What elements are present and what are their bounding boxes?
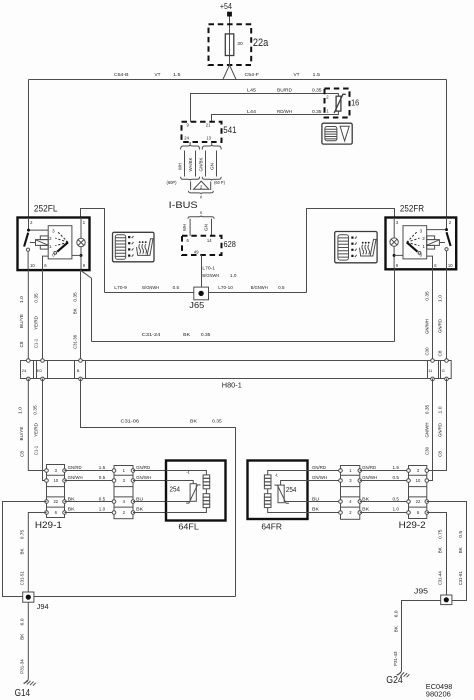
svg-text:BU/YE: BU/YE: [19, 426, 24, 440]
svg-text:0.5: 0.5: [278, 285, 285, 290]
svg-text:C31-51: C31-51: [20, 571, 25, 586]
svg-text:1.0: 1.0: [17, 406, 22, 414]
heater regulator element of 252FL: [30, 242, 36, 244]
wire stub 541 pin 24 to bundle: [189, 142, 191, 145]
switch arm of 252FL: [24, 233, 28, 247]
svg-text:1.5: 1.5: [393, 465, 400, 470]
svg-text:H29-1: H29-1: [35, 519, 62, 530]
svg-text:0.35: 0.35: [73, 291, 78, 301]
svg-text:16: 16: [351, 99, 359, 108]
wire H29-1 pin 6 to J94 BK 0.75: [28, 513, 46, 593]
wire C31-24 BK 0.35: [92, 341, 395, 343]
wire 252FR pin 9 drop: [394, 269, 396, 342]
bundle close brace left: [181, 177, 200, 181]
svg-text:YE/RD: YE/RD: [33, 423, 38, 437]
svg-text:13: 13: [206, 136, 211, 141]
svg-text:0.35: 0.35: [425, 404, 430, 414]
wire H29-2 pin 22 to J95 BK 0.5: [427, 502, 467, 601]
svg-text:GN/RD: GN/RD: [136, 465, 150, 470]
svg-text:C8: C8: [19, 341, 24, 348]
bundle close brace right: [202, 177, 221, 181]
svg-text:0.75: 0.75: [437, 529, 442, 539]
seat heater icon box right: [335, 232, 377, 263]
wire stub 541 pin 13 to bundle: [211, 142, 213, 145]
fuse 22a dashed box: [209, 24, 252, 65]
svg-text:0.5: 0.5: [458, 530, 463, 538]
svg-text:0.35: 0.35: [33, 292, 38, 302]
svg-text:C31-36: C31-36: [73, 334, 78, 349]
wire BK 1.0: [360, 512, 409, 514]
wire YE/RD 0.35 from 252FL pin 6 to H80-1: [42, 270, 44, 361]
svg-text:I-BUS: I-BUS: [169, 200, 198, 210]
svg-text:C1-1: C1-1: [34, 445, 39, 455]
svg-text:C31-44: C31-44: [437, 571, 442, 586]
svg-text:254: 254: [170, 486, 181, 493]
svg-text:C31-61: C31-61: [458, 571, 463, 586]
pin 10 of H29-2: [407, 478, 429, 483]
svg-text:1.5: 1.5: [173, 72, 181, 77]
warning triangle 2: [194, 181, 209, 189]
pin 4 of 64FL-conn: [112, 499, 135, 504]
svg-text:1.5: 1.5: [99, 465, 106, 470]
svg-text:P31-34: P31-34: [19, 659, 24, 674]
svg-text:22a: 22a: [253, 37, 268, 49]
svg-text:BK: BK: [73, 308, 78, 314]
svg-text:WH/BK: WH/BK: [188, 157, 193, 171]
svg-text:0.35: 0.35: [312, 109, 322, 114]
svg-text:0.75: 0.75: [20, 529, 25, 539]
svg-text:BK: BK: [437, 547, 442, 553]
svg-text:H80-1: H80-1: [222, 380, 242, 389]
rotary selector lever: [407, 242, 418, 251]
heater coil of 64FR: [268, 471, 308, 475]
switch 252FL box: [18, 218, 90, 271]
svg-text:P31-43: P31-43: [393, 651, 398, 666]
svg-text:EC0498: EC0498: [426, 684, 453, 691]
svg-text:GN/WH: GN/WH: [425, 319, 430, 334]
pin 4 of 64FR-conn: [339, 499, 362, 504]
svg-text:22: 22: [53, 499, 58, 504]
svg-text:1.5: 1.5: [313, 72, 321, 77]
wire H29-2 pin 6 to J95 BK 0.75: [427, 513, 447, 596]
svg-text:VT: VT: [155, 72, 161, 77]
pin 3 of H29-1: [45, 468, 67, 473]
svg-text:49: 49: [194, 250, 199, 255]
svg-text:0.5: 0.5: [173, 285, 180, 290]
wire +54 rail C54: [29, 79, 447, 81]
svg-text:0.35: 0.35: [33, 404, 38, 414]
svg-text:C31-24: C31-24: [142, 332, 161, 337]
svg-text:(60P): (60P): [167, 180, 178, 185]
wire BU/YE 1.0 from 252FL pin 10 to H80-1: [27, 270, 29, 361]
wire 252FL pin 1 riser and branch to J65 rail: [81, 209, 105, 293]
pin 6 of H29-2: [407, 510, 429, 515]
svg-text:E0: E0: [37, 368, 43, 373]
node +54 terminal square: [227, 12, 232, 17]
svg-text:541: 541: [223, 125, 236, 135]
svg-text:30: 30: [237, 41, 243, 46]
pin 2 of 64FL-conn: [112, 510, 135, 515]
heater regulator element of 252FR: [439, 242, 445, 244]
heater coil of 64FL: [166, 471, 206, 475]
thermal sensor of 64FR: [281, 481, 308, 486]
svg-text:GN/WH: GN/WH: [68, 475, 83, 480]
svg-text:252FL: 252FL: [34, 202, 58, 213]
wire GN/RD 1.5: [65, 470, 115, 472]
seat icon left: [137, 247, 148, 255]
connector block at 64FL: [114, 466, 133, 519]
wire L70-1 from 628 pin 49 to J65: [201, 255, 203, 287]
svg-text:0.35: 0.35: [312, 87, 322, 92]
svg-text:GN/RD: GN/RD: [362, 465, 376, 470]
wire WH to 628 pin 6: [189, 219, 191, 236]
svg-text:BK: BK: [362, 507, 369, 512]
svg-text:L70-9: L70-9: [114, 285, 127, 290]
pin 6 of H29-1: [45, 510, 67, 515]
wire BK 0.35 from 252FL pin 9 to H80-1: [80, 270, 82, 361]
svg-text:GN/BK: GN/BK: [198, 157, 203, 171]
sensor 16 dashed box: [325, 89, 350, 118]
indicator lamp of 252FL: [80, 218, 82, 239]
connector H29-1: [47, 465, 65, 518]
svg-text:L44: L44: [247, 109, 257, 114]
svg-text:0.5: 0.5: [99, 496, 106, 501]
svg-text:254: 254: [286, 487, 297, 494]
svg-text:BK: BK: [190, 418, 197, 423]
indicator lamp of 252FR: [393, 218, 395, 238]
wire BK into 64FL: [133, 512, 166, 514]
svg-text:G14: G14: [15, 688, 31, 699]
junction J65: [194, 287, 209, 300]
svg-text:BK: BK: [136, 507, 143, 512]
thermal sensor of 64FL: [166, 481, 193, 484]
wire GN/BK of I-BUS: [205, 151, 207, 177]
svg-text:10: 10: [448, 263, 453, 268]
svg-text:0.5: 0.5: [393, 475, 400, 480]
wire BK 1.0: [65, 512, 115, 514]
svg-text:J65: J65: [189, 301, 205, 310]
wire GN/WH from 64FR: [308, 480, 341, 482]
svg-text:B/GNWH: B/GNWH: [251, 285, 268, 290]
svg-text:628: 628: [224, 239, 237, 249]
svg-text:GN/RD: GN/RD: [438, 423, 443, 437]
twisted pair connector walls: [191, 182, 211, 191]
svg-text:0.35: 0.35: [201, 332, 211, 337]
wire rail riser to 252FL pin 2: [28, 80, 30, 218]
svg-text:C30: C30: [425, 446, 430, 455]
svg-text:10: 10: [53, 478, 58, 483]
svg-text:BK: BK: [68, 507, 75, 512]
svg-text:WH: WH: [178, 163, 183, 170]
wire rail riser to 252FR pin 2: [446, 80, 448, 218]
svg-text:B: B: [77, 368, 80, 373]
svg-text:C1-1: C1-1: [33, 338, 38, 348]
wire GN of I-BUS: [216, 151, 218, 177]
svg-text:0.5: 0.5: [393, 496, 400, 501]
wire rotary common to pin 6: [43, 256, 49, 269]
svg-text:1.0: 1.0: [393, 507, 400, 512]
pin 3 of 64FR-conn: [339, 478, 362, 483]
rotary dashed position rays: [55, 231, 68, 246]
thermistor element in 16: [336, 96, 341, 111]
wire YE/RD 0.35 from H80-1 to H29-1 pin 10: [43, 379, 45, 481]
wire pin 2 feed inside 252FL: [29, 218, 49, 231]
svg-text:0.5: 0.5: [99, 475, 106, 480]
fuse element 30: [229, 34, 231, 56]
heated seat element 64FL box: [166, 461, 226, 521]
wire GN/WH 0.5: [360, 480, 409, 482]
ground G14: [24, 679, 29, 683]
pin 22 of H29-2: [407, 499, 429, 504]
ground G24: [397, 671, 402, 675]
wire 252FL pin 9 jog: [81, 270, 92, 341]
svg-text:+54: +54: [220, 1, 232, 11]
wire C31-06 BK 0.35 ground link: [81, 379, 236, 597]
svg-text:C8: C8: [438, 450, 443, 457]
wire BU into 64FL: [133, 501, 166, 503]
heated seat element 64FR box: [248, 461, 308, 520]
svg-text:0.35: 0.35: [425, 290, 430, 300]
wire BK 0.5: [360, 501, 409, 503]
svg-text:C30: C30: [425, 347, 430, 356]
svg-text:BK: BK: [458, 547, 463, 553]
connector block at 64FR: [341, 466, 360, 520]
svg-text:GN/RD: GN/RD: [312, 465, 326, 470]
svg-text:BK: BK: [183, 332, 190, 337]
wire L45 BU/RD from 541 pin 9 to sensor 16: [191, 94, 339, 122]
svg-text:B/GNWH: B/GNWH: [142, 285, 159, 290]
svg-text:BU: BU: [312, 496, 319, 501]
svg-text:BU/RD: BU/RD: [277, 87, 292, 92]
svg-text:BK: BK: [362, 496, 369, 501]
rotary selector of 252FL: [48, 226, 72, 259]
svg-text:980206: 980206: [426, 692, 451, 699]
pin 3 of 64FL-conn: [112, 478, 135, 483]
svg-text:0.35: 0.35: [212, 418, 222, 423]
wire H29-1 pin 22 to J94: [3, 502, 47, 597]
svg-text:22: 22: [416, 499, 421, 504]
wire L44 RD/WH from 541 pin 21 to sensor 16: [212, 111, 339, 122]
svg-text:GN/WH: GN/WH: [362, 475, 377, 480]
svg-text:C8: C8: [438, 350, 443, 357]
wire BK from 64FR: [308, 512, 341, 514]
svg-text:B/GNWH: B/GNWH: [202, 273, 219, 278]
svg-text:24: 24: [184, 136, 189, 141]
svg-text:GN/WH: GN/WH: [425, 423, 430, 438]
svg-text:BU: BU: [136, 496, 143, 501]
svg-text:BK: BK: [68, 496, 75, 501]
svg-text:BK: BK: [19, 634, 24, 640]
svg-text:C54-B: C54-B: [114, 72, 129, 77]
wire BK 0.5: [65, 501, 115, 503]
pin 2 of 64FR-conn: [339, 510, 362, 515]
wire J94 to G14 BK 6.0: [27, 602, 29, 679]
svg-text:1.0: 1.0: [438, 294, 443, 302]
wire J65 horizontal B/GNWH: [105, 292, 307, 294]
wire J94 to ground-link riser: [34, 596, 236, 598]
wire BU/YE 1.0 from H80-1 to H29-1 pin 3: [28, 379, 45, 471]
svg-text:L70-10: L70-10: [218, 285, 233, 290]
wire J95 to ground drop: [402, 601, 441, 671]
connector H29-2: [409, 466, 427, 519]
svg-text:BU/YE: BU/YE: [19, 314, 24, 328]
svg-text:GN: GN: [203, 224, 208, 231]
pin 1 of 64FL-conn: [112, 468, 135, 473]
svg-text:10: 10: [30, 263, 35, 268]
svg-text:C8: C8: [20, 450, 25, 457]
svg-text:21: 21: [206, 123, 211, 128]
svg-text:1.0: 1.0: [19, 295, 24, 303]
svg-text:L45: L45: [247, 87, 257, 92]
seat temperature icon box for 16: [322, 123, 352, 144]
rotary selector lever: [57, 242, 68, 251]
svg-text:1.0: 1.0: [438, 406, 443, 414]
control unit 541 dashed box: [182, 122, 222, 142]
pin 22 of H29-1: [45, 499, 67, 504]
wire arm contact to pin 10: [27, 251, 29, 269]
bundle brace right pair: [202, 145, 221, 150]
wire GN/RD 1.5: [360, 470, 409, 472]
svg-text:G24: G24: [386, 675, 403, 686]
svg-text:10: 10: [416, 478, 421, 483]
svg-text:RD/WH: RD/WH: [277, 109, 292, 114]
svg-text:C54-F: C54-F: [245, 72, 260, 77]
wire pin 2 feed inside 252FR: [427, 218, 447, 230]
rotary selector of 252FR: [403, 226, 427, 259]
svg-text:G: G: [442, 368, 445, 373]
wire GN/RD from 64FR: [308, 470, 341, 472]
I-BUS dashed link lower: [200, 211, 202, 214]
wire fuse output to fork: [229, 56, 231, 66]
svg-text:14: 14: [207, 238, 212, 243]
bundle wide brace below triangle: [189, 191, 214, 194]
svg-text:J95: J95: [414, 586, 428, 595]
svg-text:VT: VT: [294, 72, 300, 77]
junction J94: [23, 592, 34, 602]
contact circle of 252FL arm: [26, 248, 29, 251]
pin 10 of H29-1: [45, 478, 67, 483]
bundle wide brace above 628 wires: [188, 216, 214, 219]
svg-text:C31-06: C31-06: [121, 418, 140, 423]
svg-text:1.0: 1.0: [230, 273, 237, 278]
svg-text:(60 P): (60 P): [214, 180, 225, 185]
svg-text:GN/WH: GN/WH: [312, 475, 327, 480]
junction dot at 252FL switch arm: [27, 229, 30, 232]
wire lamp to rotary box: [72, 254, 81, 256]
svg-text:WH: WH: [182, 224, 187, 231]
wire from +54 into fuse 22a: [229, 17, 231, 34]
wire GN/RD 1.0 from H80-1 to H29-2 pin 3: [429, 379, 447, 471]
wire lamp to rotary box: [394, 254, 403, 256]
wire GN/WH into 64FL: [133, 480, 166, 482]
switch arm of 252FR: [447, 232, 451, 246]
svg-text:GN/RD: GN/RD: [438, 319, 443, 333]
svg-text:BK: BK: [20, 548, 25, 554]
unit 628 dashed box: [182, 236, 222, 255]
seat heater icon box left: [113, 232, 155, 261]
svg-text:6.0: 6.0: [19, 618, 24, 626]
svg-text:H29-2: H29-2: [399, 519, 426, 530]
wire J65 rail riser to 252FR pin 3: [307, 209, 395, 293]
wire WH/BK of I-BUS: [195, 151, 197, 177]
wire GN to 628 pin 14: [211, 219, 213, 236]
svg-text:GN/WH: GN/WH: [136, 475, 151, 480]
wire GN/RD 1.0 from 252FR pin 10 to H80-1: [446, 269, 448, 361]
svg-text:252FR: 252FR: [400, 202, 424, 213]
svg-text:64FR: 64FR: [261, 521, 282, 531]
switch 252FR box: [386, 218, 457, 270]
wire BU from 64FR: [308, 501, 341, 503]
svg-text:1.0: 1.0: [99, 507, 106, 512]
pin 1 of 64FR-conn: [339, 468, 362, 473]
pin 3 of H29-2: [407, 468, 429, 473]
svg-text:YE/RD: YE/RD: [33, 316, 38, 330]
svg-text:64FL: 64FL: [178, 521, 199, 531]
seat icon right: [360, 248, 371, 256]
wire WH of I-BUS: [184, 151, 186, 177]
svg-text:GN/RD: GN/RD: [68, 465, 82, 470]
svg-text:6.0: 6.0: [394, 610, 399, 618]
svg-text:BK: BK: [394, 626, 399, 632]
connector H80-1 band: [21, 361, 452, 379]
svg-text:J94: J94: [37, 602, 49, 611]
wire fork onto +54 rail: [223, 65, 236, 79]
svg-text:24: 24: [22, 368, 27, 373]
wire GN/WH 0.35 from H80-1 to H29-2 pin 10: [429, 379, 433, 481]
wire GN/WH 0.35 from 252FR pin 6 to H80-1: [432, 269, 434, 361]
svg-text:2: 2: [200, 185, 203, 190]
wire GN/WH 0.5: [65, 480, 115, 482]
svg-text:L70-1: L70-1: [202, 266, 215, 271]
wire rotary common to pin 6: [427, 256, 433, 269]
svg-text:BK: BK: [312, 507, 319, 512]
wire GN/RD into 64FL: [133, 470, 166, 472]
svg-text:GN: GN: [209, 163, 214, 170]
I-BUS dashed link upper: [200, 196, 202, 199]
junction J95: [441, 595, 452, 605]
bundle brace left pair: [181, 145, 200, 150]
